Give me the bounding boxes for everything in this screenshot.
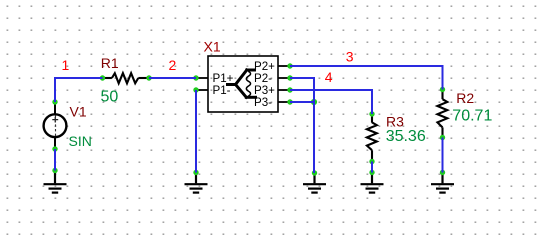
resistor R3 xyxy=(367,114,377,162)
svg-text:R2: R2 xyxy=(456,90,474,106)
ground under R2 xyxy=(431,173,454,193)
ground under P1- xyxy=(185,173,208,193)
junction dot net4 xyxy=(311,99,317,105)
svg-text:50: 50 xyxy=(101,89,119,106)
node dot R3 top xyxy=(369,111,374,116)
X1 pin leads xyxy=(196,66,290,102)
node dot P3- xyxy=(287,99,292,104)
node dot R2 bottom xyxy=(440,135,445,140)
X1 isolation squiggle xyxy=(246,71,250,96)
voltage source V1 xyxy=(44,102,67,149)
node dot P2- xyxy=(287,75,292,80)
X1 splitter symbol xyxy=(228,70,256,97)
V1 plus sign xyxy=(52,117,58,123)
svg-text:3: 3 xyxy=(346,49,354,65)
node dot ground P1- xyxy=(193,170,198,175)
svg-text:1: 1 xyxy=(62,57,70,73)
node dot R2 top xyxy=(440,87,445,92)
resistor R2 xyxy=(437,90,447,138)
svg-text:2: 2 xyxy=(169,57,177,73)
node dot V1 bottom xyxy=(52,146,57,151)
svg-text:4: 4 xyxy=(325,69,333,85)
wire R3 to ground xyxy=(371,162,373,173)
svg-text:X1: X1 xyxy=(204,39,221,55)
node dot P3+ xyxy=(287,87,292,92)
node dot R3 ground xyxy=(369,170,374,175)
node dot P1+ xyxy=(193,75,198,80)
node dot R2 ground xyxy=(440,170,445,175)
wire P1- to ground xyxy=(195,90,197,173)
ground under V1 xyxy=(44,171,67,193)
wire P2+ to R2 xyxy=(290,66,443,90)
svg-text:35.36: 35.36 xyxy=(386,128,426,145)
svg-text:V1: V1 xyxy=(70,104,87,120)
node dot R3 bottom xyxy=(369,159,374,164)
node dot R1 left xyxy=(100,75,105,80)
node dot V1 ground xyxy=(52,168,57,173)
resistor R1 xyxy=(103,73,150,83)
svg-text:R1: R1 xyxy=(101,55,119,71)
V1 dashed center line xyxy=(55,115,57,136)
wire P3- to junction xyxy=(290,101,314,103)
wire P3+ to R3 xyxy=(290,90,372,114)
wire V1 bottom to ground xyxy=(54,149,56,171)
wire R1 to P1+ xyxy=(149,77,196,79)
node dot V1 top xyxy=(52,99,57,104)
ground under R3 xyxy=(361,173,384,193)
svg-text:P1-: P1- xyxy=(213,84,231,97)
wire V1 top to R1 xyxy=(55,78,103,102)
node dot P2+ xyxy=(287,63,292,68)
svg-text:70.71: 70.71 xyxy=(452,108,492,125)
node dot R1 right xyxy=(146,75,151,80)
wire P2- down to ground xyxy=(290,78,314,173)
op-amp X1 box xyxy=(208,56,278,112)
node dot P1- xyxy=(193,87,198,92)
node dot ground mid xyxy=(312,170,317,175)
ground under P2-/P3- net xyxy=(303,173,326,193)
wire R2 to ground xyxy=(442,138,444,173)
svg-text:P3-: P3- xyxy=(254,96,272,109)
svg-text:SIN: SIN xyxy=(69,133,92,149)
